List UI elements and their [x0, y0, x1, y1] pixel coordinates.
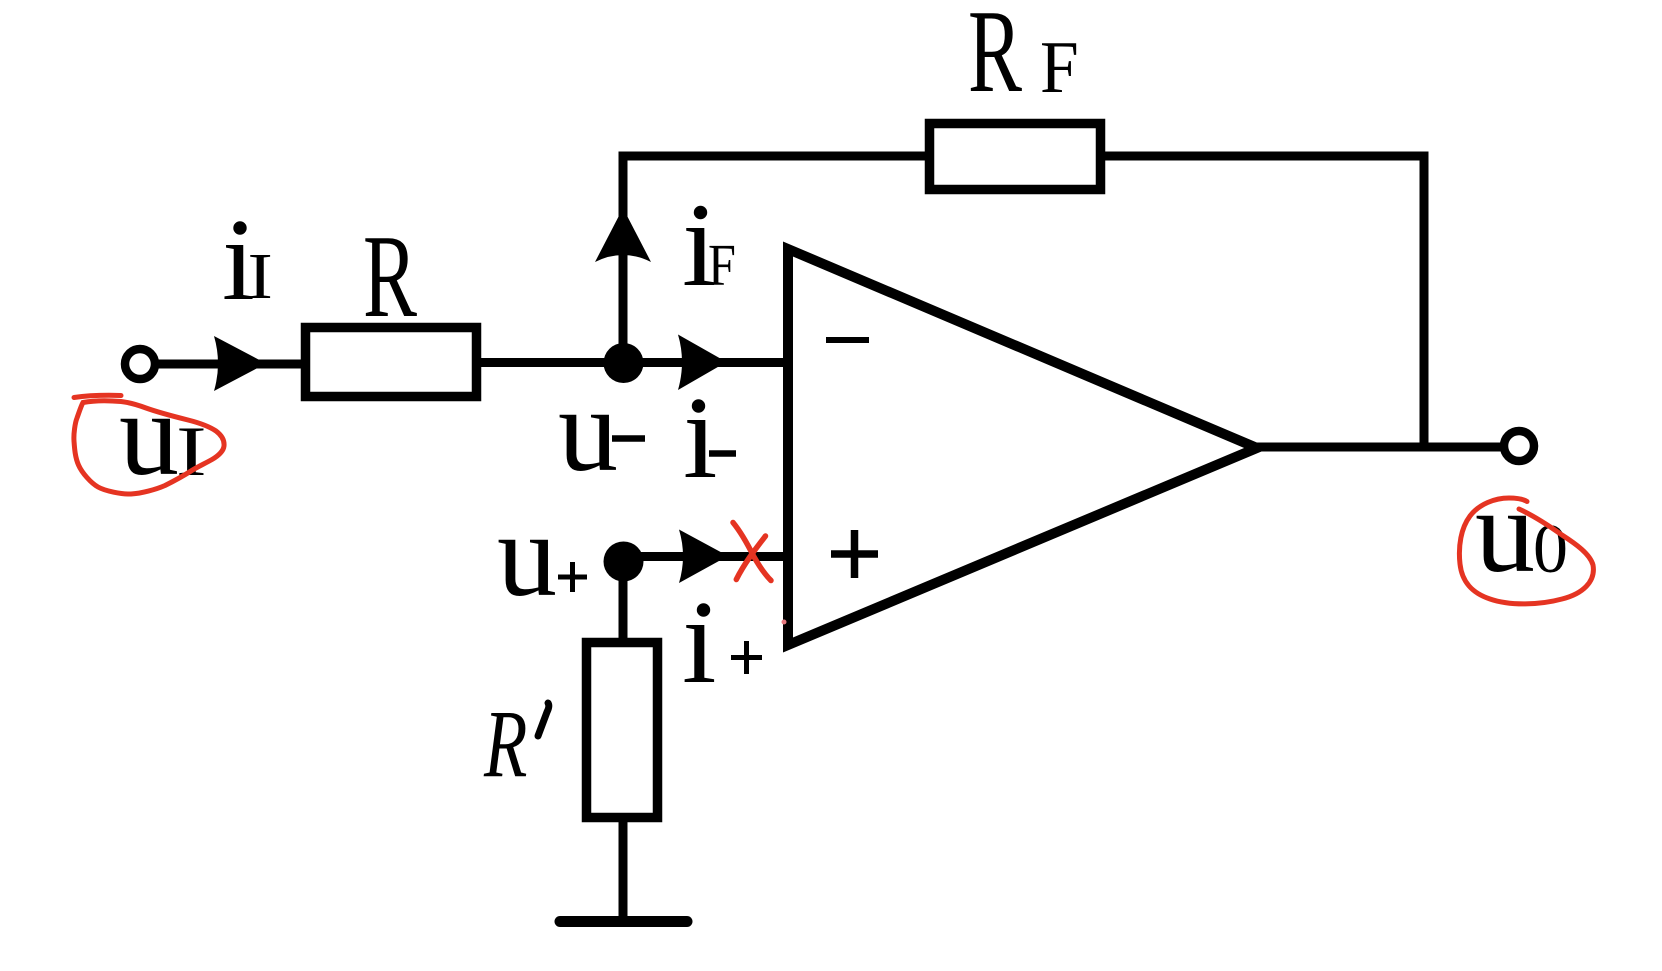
current arrow i- on inverting input wire	[678, 335, 727, 391]
wire: input terminal to resistor R	[148, 360, 305, 369]
label i+ (phasor)	[697, 603, 710, 616]
current arrow iF (upward)	[595, 208, 651, 262]
input terminal circle uI	[125, 349, 155, 379]
node u- junction dot	[604, 343, 644, 383]
current arrow i+ on non-inverting wire	[679, 530, 728, 584]
red annotation: circle around uO	[1459, 498, 1593, 604]
wire: node u+ to non-inverting input	[623, 552, 786, 561]
op-amp U1 triangle	[788, 249, 1257, 645]
svg-text:R: R	[363, 211, 417, 343]
ground	[560, 916, 687, 927]
svg-text:u: u	[497, 488, 557, 621]
svg-text:u: u	[558, 363, 618, 496]
svg-text:0: 0	[1533, 511, 1568, 588]
wire: node u+ down to resistor R'	[619, 560, 628, 646]
current arrow iI on input wire	[214, 336, 266, 391]
wire: resistor R' to ground	[619, 817, 628, 918]
op-amp non-inverting input plus sign	[831, 550, 878, 558]
svg-text:ı: ı	[682, 572, 716, 709]
wire: RF to right vertical feedback drop	[1100, 156, 1424, 447]
output terminal circle uO	[1504, 431, 1534, 461]
node u+ junction dot	[604, 542, 644, 582]
svg-text:ı: ı	[683, 367, 717, 504]
svg-text:u: u	[1475, 464, 1535, 597]
resistor R body	[306, 328, 477, 397]
label iI (phasor i with subscript I)	[233, 221, 246, 234]
wire: op-amp output to terminal	[1253, 443, 1507, 452]
red annotation: X cross on non-inverting wire	[733, 523, 771, 581]
svg-text:u: u	[119, 367, 179, 500]
resistor R' body	[587, 643, 658, 818]
svg-text:F: F	[708, 232, 736, 298]
wire: resistor R to inverting input of op-amp	[477, 358, 786, 367]
op-amp inverting input minus sign	[826, 337, 869, 343]
svg-text:I: I	[248, 240, 273, 312]
label iF (phasor)	[694, 206, 707, 219]
svg-text:F: F	[1040, 26, 1079, 108]
svg-text:R: R	[968, 0, 1022, 118]
red annotation: circle around uI	[74, 401, 224, 494]
wire: node u- up to feedback line	[623, 156, 929, 363]
red annotation: small dot near op-amp lower vertex	[782, 620, 787, 625]
svg-text:R: R	[483, 692, 527, 798]
label i- (phasor)	[692, 399, 705, 412]
resistor RF body	[930, 124, 1101, 190]
